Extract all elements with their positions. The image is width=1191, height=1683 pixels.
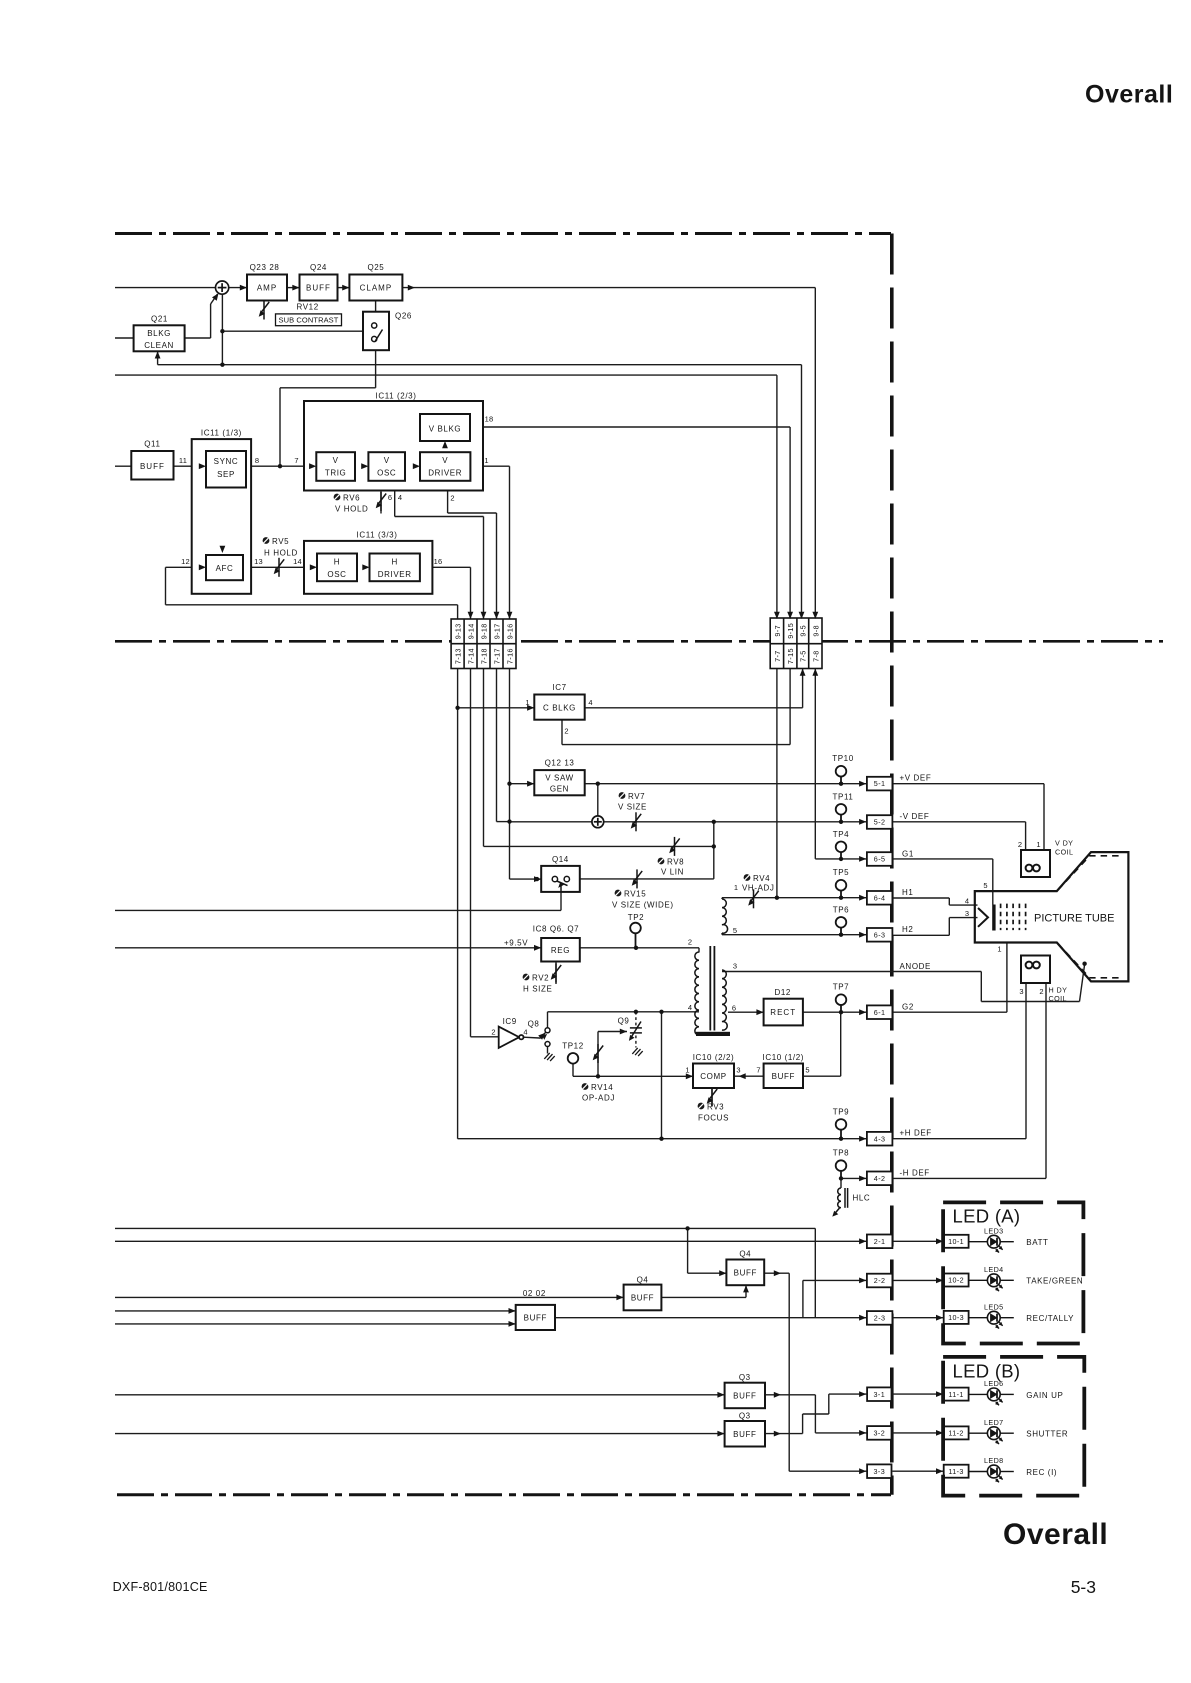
svg-text:7-8: 7-8 [811,650,820,662]
svg-text:5: 5 [733,926,737,935]
svg-text:IC7: IC7 [552,683,566,692]
svg-text:RV6: RV6 [343,494,360,503]
svg-text:H SIZE: H SIZE [523,985,552,994]
svg-text:V HOLD: V HOLD [335,505,368,514]
svg-text:TP2: TP2 [628,913,644,922]
svg-text:BLKG: BLKG [147,329,171,338]
svg-text:HLC: HLC [853,1194,871,1203]
svg-text:2-3: 2-3 [874,1314,886,1323]
svg-text:4: 4 [965,897,969,906]
svg-text:Q3: Q3 [739,1411,751,1420]
svg-text:9-5: 9-5 [799,625,808,637]
svg-text:RV5: RV5 [272,537,289,546]
svg-text:4-2: 4-2 [874,1174,886,1183]
svg-text:TP6: TP6 [833,905,849,914]
svg-text:LED8: LED8 [984,1456,1004,1465]
svg-text:Q23 28: Q23 28 [250,263,280,272]
svg-text:V SAW: V SAW [545,774,573,783]
svg-text:IC9: IC9 [503,1017,517,1026]
svg-text:3: 3 [1019,987,1023,996]
svg-text:TP9: TP9 [833,1107,849,1116]
svg-text:Q25: Q25 [367,263,384,272]
svg-text:V DY: V DY [1055,839,1073,848]
svg-text:SUB CONTRAST: SUB CONTRAST [279,316,339,325]
svg-text:LED5: LED5 [984,1302,1004,1311]
svg-text:12: 12 [181,557,190,566]
svg-text:RV12: RV12 [297,303,319,312]
svg-text:8: 8 [255,456,259,465]
svg-text:BUFF: BUFF [631,1293,654,1302]
svg-text:VH-ADJ: VH-ADJ [742,884,775,893]
svg-text:BUFF: BUFF [772,1072,795,1081]
svg-text:V: V [442,456,448,465]
svg-text:DXF-801/801CE: DXF-801/801CE [113,1580,208,1594]
svg-text:2: 2 [564,727,568,736]
svg-text:LED6: LED6 [984,1379,1004,1388]
svg-text:Q8: Q8 [528,1020,540,1029]
svg-text:TRIG: TRIG [325,469,347,478]
svg-text:AFC: AFC [216,564,234,573]
svg-text:GAIN UP: GAIN UP [1026,1391,1063,1400]
svg-text:+V DEF: +V DEF [900,774,932,783]
svg-text:-V DEF: -V DEF [900,812,930,821]
svg-text:RV14: RV14 [591,1083,613,1092]
svg-text:10-3: 10-3 [948,1313,964,1322]
svg-text:3: 3 [736,1066,740,1075]
svg-text:SYNC: SYNC [214,457,239,466]
svg-text:9-13: 9-13 [454,623,463,639]
svg-text:2: 2 [1039,987,1043,996]
svg-text:TP11: TP11 [833,792,854,801]
svg-text:9-16: 9-16 [505,623,514,639]
svg-text:V SIZE (WIDE): V SIZE (WIDE) [612,901,674,910]
svg-text:18: 18 [485,415,494,424]
svg-text:7-18: 7-18 [479,648,488,664]
svg-text:4: 4 [523,1028,527,1037]
svg-text:Q4: Q4 [637,1275,649,1284]
svg-text:REC (I): REC (I) [1026,1468,1057,1477]
svg-text:2: 2 [1018,840,1022,849]
svg-text:7-5: 7-5 [799,650,808,662]
svg-text:5: 5 [805,1066,809,1075]
svg-text:IC11 (1/3): IC11 (1/3) [201,429,242,438]
svg-text:BUFF: BUFF [524,1314,547,1323]
svg-text:Overall: Overall [1085,81,1173,109]
svg-text:3-1: 3-1 [874,1390,886,1399]
svg-text:H: H [392,558,398,567]
svg-text:SHUTTER: SHUTTER [1026,1430,1068,1439]
svg-text:6-5: 6-5 [874,855,886,864]
svg-text:RV4: RV4 [753,874,770,883]
svg-text:7-14: 7-14 [466,648,475,664]
svg-text:9-14: 9-14 [466,623,475,639]
svg-text:1: 1 [734,883,738,892]
svg-text:BUFF: BUFF [306,284,331,293]
svg-text:Q24: Q24 [310,263,327,272]
svg-text:2: 2 [491,1028,495,1037]
svg-text:7-16: 7-16 [505,648,514,664]
svg-text:BUFF: BUFF [140,462,165,471]
svg-text:5-3: 5-3 [1071,1577,1096,1597]
svg-text:Q3: Q3 [739,1373,751,1382]
svg-text:4: 4 [688,1003,692,1012]
svg-text:TP5: TP5 [833,868,849,877]
svg-text:C BLKG: C BLKG [543,703,576,712]
svg-text:RV15: RV15 [624,890,646,899]
svg-text:11-2: 11-2 [948,1429,963,1438]
svg-text:OSC: OSC [377,469,396,478]
svg-text:7: 7 [756,1066,760,1075]
svg-text:TP12: TP12 [562,1041,584,1050]
svg-text:REG: REG [551,946,570,955]
svg-text:3: 3 [965,909,969,918]
svg-text:V: V [384,456,390,465]
svg-text:6-3: 6-3 [874,930,886,939]
svg-text:TP7: TP7 [833,983,849,992]
svg-text:11-3: 11-3 [948,1467,963,1476]
svg-text:IC10 (1/2): IC10 (1/2) [763,1053,805,1062]
svg-text:3: 3 [733,962,737,971]
svg-text:PICTURE TUBE: PICTURE TUBE [1034,913,1114,925]
svg-text:REC/TALLY: REC/TALLY [1026,1314,1074,1323]
svg-text:02 02: 02 02 [523,1289,546,1298]
svg-text:Q26: Q26 [395,312,412,321]
svg-text:LED4: LED4 [984,1265,1004,1274]
svg-text:9-17: 9-17 [492,623,501,639]
svg-text:5: 5 [983,881,987,890]
svg-text:2-1: 2-1 [874,1237,886,1246]
svg-text:3-2: 3-2 [874,1429,886,1438]
svg-text:FOCUS: FOCUS [698,1114,729,1123]
svg-text:9-15: 9-15 [786,623,795,639]
svg-text:4: 4 [588,698,592,707]
svg-text:14: 14 [293,557,302,566]
svg-text:2: 2 [450,494,454,503]
svg-text:9-18: 9-18 [479,623,488,639]
svg-text:GEN: GEN [550,785,569,794]
svg-text:V BLKG: V BLKG [429,425,462,434]
svg-text:RV8: RV8 [667,858,684,867]
svg-text:OP-ADJ: OP-ADJ [582,1094,615,1103]
svg-text:RV3: RV3 [707,1103,724,1112]
svg-text:1: 1 [484,456,488,465]
svg-text:DRIVER: DRIVER [428,469,462,478]
svg-text:IC11 (2/3): IC11 (2/3) [376,392,417,401]
svg-text:CLAMP: CLAMP [360,284,393,293]
svg-text:IC10 (2/2): IC10 (2/2) [693,1053,735,1062]
svg-text:ANODE: ANODE [900,962,931,971]
svg-text:7: 7 [294,456,298,465]
svg-text:-H DEF: -H DEF [900,1169,930,1178]
svg-text:BUFF: BUFF [734,1268,757,1277]
svg-text:11: 11 [179,456,187,465]
svg-text:7-7: 7-7 [773,650,782,662]
svg-text:LED3: LED3 [984,1226,1004,1235]
svg-text:TP4: TP4 [833,830,849,839]
svg-text:SEP: SEP [217,470,235,479]
svg-text:COMP: COMP [700,1072,726,1081]
svg-text:9-8: 9-8 [811,625,820,637]
svg-text:Overall: Overall [1003,1518,1108,1551]
svg-text:7-15: 7-15 [786,648,795,664]
svg-text:4: 4 [398,493,402,502]
svg-text:11-1: 11-1 [948,1390,963,1399]
svg-text:COIL: COIL [1055,848,1073,857]
svg-text:+9.5V: +9.5V [504,939,528,948]
svg-text:V LIN: V LIN [661,868,684,877]
svg-text:Q12 13: Q12 13 [545,759,575,768]
svg-text:H: H [334,558,340,567]
svg-text:LED7: LED7 [984,1418,1004,1427]
svg-text:H2: H2 [902,925,913,934]
svg-text:1: 1 [1036,840,1040,849]
svg-text:IC11 (3/3): IC11 (3/3) [357,531,398,540]
svg-text:Q11: Q11 [144,440,160,449]
svg-text:6-1: 6-1 [874,1008,886,1017]
svg-text:RECT: RECT [770,1008,796,1017]
svg-text:13: 13 [254,557,263,566]
svg-text:4-3: 4-3 [874,1134,886,1143]
svg-text:TP8: TP8 [833,1149,849,1158]
svg-text:10-2: 10-2 [948,1276,964,1285]
svg-text:COIL: COIL [1049,994,1067,1003]
svg-text:LED (A): LED (A) [953,1206,1021,1227]
svg-text:Q9: Q9 [618,1017,630,1026]
svg-text:2-2: 2-2 [874,1276,886,1285]
svg-text:Q21: Q21 [151,315,168,324]
svg-text:+H DEF: +H DEF [900,1129,932,1138]
svg-text:1: 1 [685,1066,689,1075]
svg-text:1: 1 [997,945,1001,954]
svg-text:6: 6 [388,493,392,502]
svg-text:G1: G1 [902,850,914,859]
svg-text:TAKE/GREEN: TAKE/GREEN [1026,1277,1083,1286]
svg-text:G2: G2 [902,1003,914,1012]
svg-text:RV2: RV2 [532,974,549,983]
svg-text:BATT: BATT [1026,1238,1048,1247]
svg-text:7-13: 7-13 [454,648,463,664]
svg-text:3-3: 3-3 [874,1467,886,1476]
svg-text:10-1: 10-1 [948,1237,964,1246]
svg-text:D12: D12 [774,988,790,997]
svg-text:6-4: 6-4 [874,893,886,902]
svg-text:CLEAN: CLEAN [144,341,174,350]
svg-text:OSC: OSC [327,570,346,579]
svg-text:H HOLD: H HOLD [264,549,298,558]
svg-text:BUFF: BUFF [733,1430,756,1439]
svg-text:BUFF: BUFF [733,1392,756,1401]
svg-text:5-2: 5-2 [874,818,886,827]
svg-text:9-7: 9-7 [773,625,782,637]
svg-text:TP10: TP10 [832,754,854,763]
svg-text:6: 6 [732,1004,736,1013]
svg-text:V: V [333,456,339,465]
svg-text:5-1: 5-1 [874,779,886,788]
svg-text:7-17: 7-17 [492,648,501,664]
svg-text:H1: H1 [902,888,913,897]
svg-text:Q4: Q4 [739,1250,751,1259]
svg-text:IC8 Q6. Q7: IC8 Q6. Q7 [533,925,579,934]
svg-text:RV7: RV7 [628,792,645,801]
svg-text:AMP: AMP [257,284,277,293]
svg-text:16: 16 [434,557,443,566]
svg-text:V SIZE: V SIZE [618,803,647,812]
svg-text:Q14: Q14 [552,855,569,864]
svg-text:DRIVER: DRIVER [378,570,412,579]
svg-text:2: 2 [688,938,692,947]
